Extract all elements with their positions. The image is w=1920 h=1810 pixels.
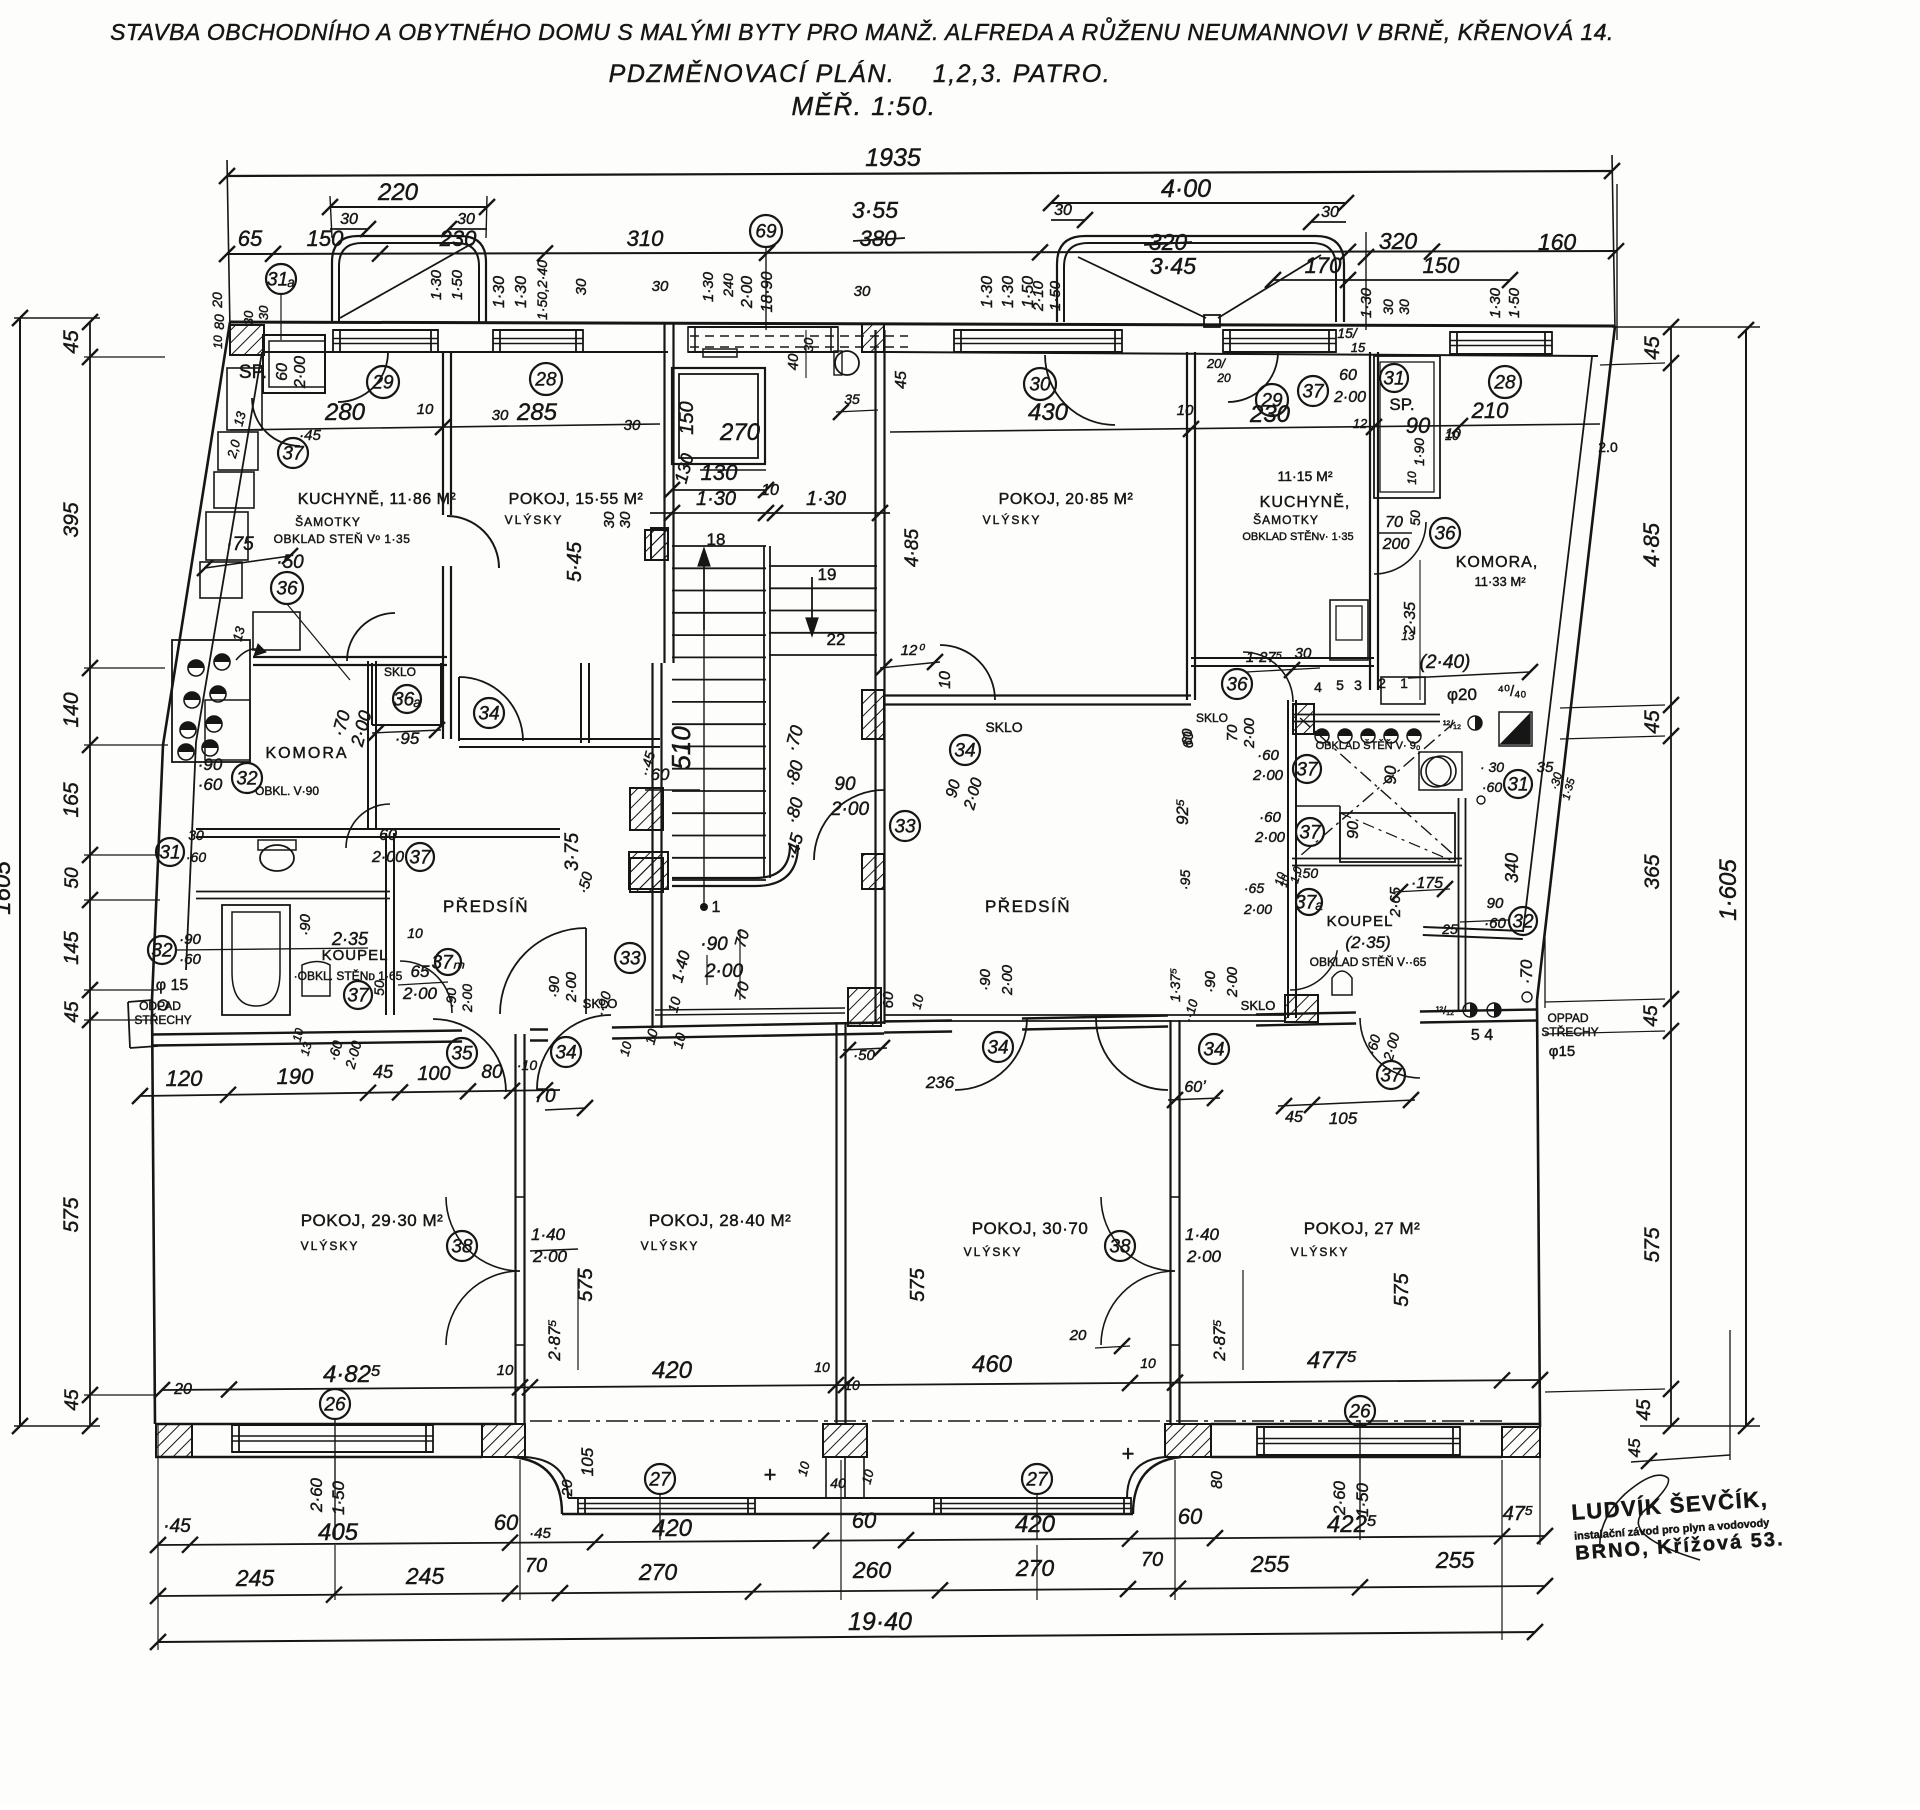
svg-text:255: 255 — [1435, 1547, 1475, 1573]
svg-text:60: 60 — [852, 1508, 877, 1533]
svg-text:VLÝSKY: VLÝSKY — [983, 512, 1042, 527]
svg-text:45: 45 — [1634, 1399, 1655, 1421]
svg-text:45: 45 — [1625, 1438, 1644, 1457]
svg-text:105: 105 — [578, 1447, 597, 1476]
svg-text:2·00: 2·00 — [1224, 966, 1241, 998]
svg-text:(2·35): (2·35) — [1345, 933, 1390, 952]
svg-text:28: 28 — [1493, 373, 1516, 394]
svg-text:11·15 M²: 11·15 M² — [1278, 468, 1333, 484]
svg-text:·90: ·90 — [198, 755, 223, 774]
svg-text:10: 10 — [211, 335, 225, 349]
svg-text:160: 160 — [1538, 229, 1577, 255]
pillar hatched bottom left of bay — [482, 1424, 525, 1457]
circled 36 kitchen — [271, 572, 303, 604]
circled 69 axis top — [750, 215, 782, 247]
svg-text:45: 45 — [373, 1062, 394, 1082]
circled 28 left — [530, 363, 562, 395]
svg-text:POKOJ, 27 M²: POKOJ, 27 M² — [1304, 1219, 1421, 1238]
svg-text:320: 320 — [1379, 228, 1418, 254]
svg-text:477⁵: 477⁵ — [1307, 1347, 1357, 1374]
svg-text:70: 70 — [534, 1086, 556, 1107]
wall pokoj30/27 — [1169, 1020, 1171, 1424]
circled 29 right — [1228, 352, 1278, 402]
door arc predsin right — [1243, 652, 1293, 702]
wall pokoj29/28 — [514, 1034, 516, 1424]
svg-text:2·00: 2·00 — [739, 276, 756, 309]
dim row 170 150 — [1273, 279, 1510, 281]
svg-text:90: 90 — [1487, 895, 1504, 912]
svg-text:20: 20 — [1069, 1327, 1087, 1344]
svg-text:37: 37 — [409, 848, 432, 869]
svg-text:OBKL. V·90: OBKL. V·90 — [255, 784, 319, 798]
svg-text:150: 150 — [1423, 253, 1460, 278]
svg-text:255: 255 — [1250, 1551, 1290, 1577]
svg-text:422⁵: 422⁵ — [1327, 1511, 1377, 1538]
stair axis line vertical — [703, 630, 705, 907]
balcony right rounded outline — [1057, 236, 1344, 322]
svg-text:1·30: 1·30 — [1358, 287, 1375, 318]
outer wall right slanted — [1537, 326, 1615, 1000]
svg-text:310: 310 — [627, 226, 664, 251]
svg-text:20: 20 — [559, 1479, 576, 1497]
SP pantry room — [263, 335, 325, 393]
svg-text:60: 60 — [1179, 728, 1196, 745]
svg-text:32: 32 — [151, 941, 173, 962]
left extension ticks — [14, 317, 100, 319]
arrow into kitchen — [236, 649, 260, 660]
svg-text:60: 60 — [880, 991, 897, 1008]
dim row y1590 245 245 70 270 260 270 70 255 255 — [158, 1586, 1545, 1596]
balcony left rounded outline — [332, 236, 486, 322]
svg-text:PŘEDSÍŇ: PŘEDSÍŇ — [985, 897, 1071, 916]
svg-text:36ₐ: 36ₐ — [393, 690, 421, 711]
svg-text:2·87⁵: 2·87⁵ — [545, 1319, 564, 1361]
hatch block predsin right wall upper — [630, 788, 663, 830]
svg-text:30: 30 — [1396, 299, 1412, 315]
svg-text:2.0: 2.0 — [1598, 439, 1618, 455]
svg-text:ŠAMOTKY: ŠAMOTKY — [1253, 512, 1319, 527]
door arc 35 — [433, 1019, 506, 1092]
stair right wall hatch lower — [862, 854, 884, 889]
stair walking line down right — [811, 577, 813, 628]
svg-text:45: 45 — [60, 330, 83, 354]
svg-text:90: 90 — [1406, 413, 1431, 438]
svg-text:30: 30 — [652, 278, 669, 295]
bath tub left apartment — [222, 905, 290, 1015]
dim right balcony 4.00 — [1051, 202, 1346, 204]
dim left balcony 220 — [330, 206, 487, 208]
svg-text:47⁵: 47⁵ — [1503, 1503, 1534, 1525]
svg-text:80: 80 — [1209, 1471, 1226, 1489]
svg-text:60: 60 — [1339, 367, 1357, 384]
svg-text:SP.: SP. — [1389, 395, 1414, 414]
svg-text:395: 395 — [60, 502, 83, 537]
svg-text:45: 45 — [1285, 1109, 1303, 1126]
wall kuchyne/komora right — [1369, 352, 1371, 690]
svg-text:18·90: 18·90 — [759, 271, 776, 312]
svg-text:25: 25 — [1441, 921, 1458, 937]
svg-text:·90: ·90 — [297, 914, 314, 936]
bay curve left — [513, 1457, 562, 1514]
svg-text:38: 38 — [451, 1237, 473, 1258]
stair dim 130 — [672, 489, 766, 491]
left dim line 1605 — [19, 318, 21, 1426]
door arc 36a kitchen-pokoj — [447, 516, 499, 568]
svg-text:1·30: 1·30 — [1487, 287, 1504, 318]
svg-text:70: 70 — [1141, 1549, 1163, 1571]
svg-text:1·30: 1·30 — [696, 488, 736, 510]
diag dashdot bathroom right — [1300, 718, 1455, 856]
svg-text:190: 190 — [277, 1064, 314, 1089]
svg-text:2·00: 2·00 — [459, 984, 475, 1013]
svg-text:PDZMĚNOVACÍ PLÁN.: PDZMĚNOVACÍ PLÁN. — [609, 59, 896, 88]
dim top overall 1935 — [227, 171, 1612, 176]
svg-text:OBKLAD STĚŇ V··65: OBKLAD STĚŇ V··65 — [1310, 954, 1427, 969]
water heater arch koupel right — [1332, 971, 1352, 995]
svg-text:31: 31 — [1383, 369, 1404, 390]
svg-text:65: 65 — [411, 962, 430, 981]
svg-text:OBKLAD ŠTĚŇ V· 9₀: OBKLAD ŠTĚŇ V· 9₀ — [1316, 739, 1421, 752]
svg-text:220: 220 — [377, 179, 419, 206]
svg-text:65: 65 — [238, 226, 263, 251]
svg-text:35: 35 — [844, 391, 860, 407]
svg-text:90: 90 — [834, 774, 856, 795]
svg-text:4·00: 4·00 — [1161, 175, 1211, 203]
svg-text:OPPAD: OPPAD — [1547, 1011, 1588, 1025]
koupel left walls — [385, 833, 387, 1015]
dim 30 small with hatch near stair — [645, 530, 668, 560]
komora room walls — [367, 661, 369, 830]
svg-text:·75: ·75 — [226, 534, 254, 555]
stair treads left run — [672, 545, 766, 547]
svg-text:130: 130 — [701, 460, 738, 485]
stair landing window with dashed lines — [688, 326, 838, 328]
svg-text:30: 30 — [1295, 645, 1312, 662]
svg-text:510: 510 — [666, 726, 696, 770]
svg-text:13: 13 — [1401, 629, 1415, 643]
svg-text:270: 270 — [638, 1559, 678, 1585]
svg-text:26: 26 — [323, 1395, 346, 1416]
door 38 double arcs right — [1101, 1197, 1175, 1271]
sink right circle — [1421, 757, 1451, 787]
svg-text:10: 10 — [1445, 428, 1460, 443]
dim row y1540 45 405 60 420 60 420 60 422.5 47.5 — [158, 1536, 1545, 1545]
svg-text:·90: ·90 — [700, 934, 728, 955]
half circles 12/12 marks — [1468, 716, 1482, 730]
window 30 right apartment — [954, 329, 1122, 331]
svg-text:·60: ·60 — [1259, 809, 1281, 826]
hatch block predsin right wall lower — [630, 858, 663, 892]
svg-text:KUCHYNĚ, 11·86 M²: KUCHYNĚ, 11·86 M² — [298, 489, 457, 508]
svg-text:1·605: 1·605 — [1715, 859, 1742, 921]
svg-text:60: 60 — [494, 1510, 519, 1535]
svg-text:1·50: 1·50 — [1506, 287, 1523, 318]
svg-text:19·40: 19·40 — [848, 1608, 912, 1636]
svg-text:3·75: 3·75 — [562, 833, 583, 871]
svg-text:MĚŘ. 1:50.: MĚŘ. 1:50. — [791, 91, 936, 121]
svg-text:30: 30 — [241, 310, 256, 325]
window 28 left apartment — [493, 329, 583, 331]
elevator shaft — [672, 368, 765, 464]
circled 31 right wall — [1504, 770, 1532, 798]
balcony left diagonal strut — [340, 243, 473, 318]
svg-text:50: 50 — [371, 980, 387, 996]
svg-text:·45: ·45 — [163, 1516, 191, 1537]
circled 28 right — [1489, 366, 1521, 398]
main horizontal wall hall/pokoj row — [152, 1042, 462, 1046]
svg-text:·50: ·50 — [853, 1047, 875, 1064]
svg-text:460: 460 — [972, 1351, 1013, 1378]
svg-text:285: 285 — [516, 399, 558, 426]
door arc 37 right to pokoj27 — [1360, 1018, 1420, 1078]
circled 32 komora — [232, 763, 262, 793]
svg-text:2·35: 2·35 — [331, 929, 369, 949]
svg-text:32: 32 — [1512, 912, 1534, 933]
svg-text:365: 365 — [1641, 854, 1664, 889]
svg-text:5 4: 5 4 — [1471, 1027, 1493, 1044]
door 38 double arcs left — [446, 1197, 520, 1271]
wall under kuchyne right y660 — [1191, 665, 1374, 667]
cupboard right of komora — [205, 700, 250, 760]
stair left wall hatch lower — [629, 852, 668, 889]
outer wall top inner face — [264, 351, 668, 353]
svg-text:37ₘ: 37ₘ — [432, 953, 465, 974]
svg-text:45: 45 — [893, 371, 910, 389]
svg-text:+: + — [1122, 1441, 1135, 1466]
svg-text:· 30: · 30 — [1480, 759, 1504, 775]
dim left balcony 30 sub — [330, 228, 368, 230]
svg-text:30: 30 — [1380, 299, 1396, 315]
svg-text:19: 19 — [818, 565, 837, 584]
svg-text:260: 260 — [852, 1557, 892, 1583]
svg-text:236: 236 — [925, 1073, 955, 1092]
pillar hatched bottom right of bay — [1165, 1424, 1211, 1457]
bay center mullion lines — [825, 1457, 827, 1498]
svg-text:45: 45 — [62, 1001, 83, 1023]
svg-text:·60: ·60 — [186, 849, 206, 865]
svg-text:30: 30 — [601, 511, 618, 528]
svg-text:SP.: SP. — [239, 362, 267, 383]
svg-text:30: 30 — [188, 827, 204, 843]
dims 70 200 box right kitchen — [1377, 532, 1412, 534]
svg-text:31ₐ: 31ₐ — [267, 270, 295, 291]
coat hooks right apartment — [1315, 729, 1329, 743]
wall bottom pokoj 20.85 y700 — [884, 703, 1191, 705]
stair core left wall upper — [663, 322, 665, 663]
circled 37 sp right — [1298, 376, 1328, 406]
elevator dim 270 — [700, 469, 766, 471]
svg-text:·90: ·90 — [977, 969, 994, 991]
svg-text:2·00: 2·00 — [999, 964, 1016, 996]
svg-text:10: 10 — [814, 1359, 830, 1375]
door arc 37a right — [1290, 950, 1337, 990]
svg-text:37: 37 — [1302, 382, 1325, 403]
svg-text:VLÝSKY: VLÝSKY — [301, 1238, 360, 1253]
svg-text:270: 270 — [1015, 1555, 1055, 1581]
svg-text:22: 22 — [827, 630, 846, 649]
svg-text:30: 30 — [1054, 202, 1072, 219]
stair up arrow 18 — [703, 556, 705, 630]
svg-text:·95: ·95 — [1177, 870, 1193, 890]
svg-text:15/: 15/ — [1337, 325, 1359, 341]
svg-text:15: 15 — [1351, 340, 1366, 355]
svg-text:1·30: 1·30 — [1000, 276, 1017, 308]
svg-text:KUCHYNĚ,: KUCHYNĚ, — [1260, 492, 1351, 511]
svg-text:20: 20 — [209, 292, 225, 309]
svg-text:30: 30 — [801, 337, 816, 352]
hatch top-left bathroom block — [1293, 704, 1314, 734]
svg-text:60: 60 — [274, 363, 291, 381]
door arc 36 kitchen door — [347, 613, 395, 661]
svg-text:OBKLAD STEŇ Vᵒ 1·35: OBKLAD STEŇ Vᵒ 1·35 — [274, 531, 411, 546]
dim row y=252: 65 150 230 310 380 320 160 — [227, 251, 1616, 254]
svg-text:405: 405 — [318, 1519, 359, 1546]
svg-text:POKOJ, 30·70: POKOJ, 30·70 — [972, 1219, 1089, 1238]
svg-text:2·87⁵: 2·87⁵ — [1210, 1319, 1229, 1361]
svg-text:VLÝSKY: VLÝSKY — [505, 512, 564, 527]
bath tub right apartment — [1340, 813, 1455, 862]
svg-text:80: 80 — [211, 314, 227, 330]
svg-text:20/: 20/ — [1206, 356, 1226, 371]
hall dims 60 and arcs — [645, 789, 700, 791]
stair core left wall lower — [651, 663, 653, 1028]
pillar hatched bottom far-left — [156, 1424, 192, 1457]
svg-text:⁴⁰/₄₀: ⁴⁰/₄₀ — [1498, 683, 1527, 700]
stair bottom curve — [672, 845, 790, 878]
svg-text:4·82⁵: 4·82⁵ — [323, 1361, 381, 1388]
svg-text:40: 40 — [830, 1475, 846, 1491]
svg-text:27: 27 — [648, 1470, 672, 1491]
svg-text:1605: 1605 — [0, 861, 16, 915]
door arc 29 left window — [338, 352, 388, 402]
svg-text:245: 245 — [235, 1565, 275, 1591]
outer wall bottom left section — [155, 1423, 513, 1425]
circled 32 koupel — [148, 936, 176, 964]
svg-text:2·00: 2·00 — [1186, 1247, 1222, 1266]
dim 2.60 1.50 window26 left — [334, 1418, 336, 1538]
svg-text:PŘEDSÍŇ: PŘEDSÍŇ — [443, 897, 529, 916]
outer wall left slanted — [163, 322, 230, 745]
outer wall top — [230, 322, 1615, 326]
svg-text:10: 10 — [407, 925, 423, 941]
svg-text:1·30: 1·30 — [513, 276, 530, 308]
stamp swoosh — [1600, 1475, 1700, 1560]
svg-text:SKLO: SKLO — [384, 665, 416, 679]
svg-text:240: 240 — [720, 273, 736, 298]
svg-text:36: 36 — [276, 579, 298, 600]
dim row under wall 120 190 45 100 80 70 — [140, 1090, 560, 1096]
svg-text:340: 340 — [1502, 853, 1522, 883]
svg-text:150: 150 — [307, 226, 344, 251]
svg-text:KOUPEL: KOUPEL — [322, 947, 389, 964]
svg-text:10: 10 — [761, 482, 779, 499]
svg-text:2·00: 2·00 — [1254, 829, 1286, 846]
circled 37a right — [1296, 889, 1322, 915]
svg-text:30: 30 — [492, 407, 509, 424]
svg-text:1·90: 1·90 — [1411, 438, 1427, 466]
svg-text:POKOJ, 15·55 M²: POKOJ, 15·55 M² — [509, 491, 644, 508]
svg-text:2·00: 2·00 — [1333, 389, 1366, 406]
door arc kuchyne right — [1374, 522, 1426, 574]
svg-text:1·50: 1·50 — [329, 1480, 348, 1515]
svg-text:30: 30 — [617, 511, 634, 528]
svg-text:92⁵: 92⁵ — [1173, 799, 1192, 825]
svg-text:1·30: 1·30 — [700, 271, 717, 302]
dim 35 under vent — [836, 410, 878, 412]
svg-text:1·30: 1·30 — [428, 269, 445, 300]
window 27 bay right — [934, 1497, 1131, 1499]
dim 50 under hatch — [843, 1048, 887, 1050]
extension lines bottom — [157, 1424, 159, 1650]
svg-text:·60: ·60 — [198, 775, 223, 794]
svg-text:90: 90 — [1381, 765, 1400, 784]
pillar hatched bottom far-right — [1502, 1427, 1540, 1457]
dim total 19.40 — [158, 1632, 1535, 1642]
svg-text:29: 29 — [1260, 391, 1283, 412]
svg-text:575: 575 — [1641, 1227, 1664, 1262]
svg-text:ŠAMOTKY: ŠAMOTKY — [295, 514, 361, 529]
svg-text:1,2,3. PATRO.: 1,2,3. PATRO. — [933, 60, 1111, 88]
hatch at stair wall bottom junction — [848, 988, 881, 1026]
sklo wall right predsin — [884, 1020, 1285, 1022]
svg-text:34: 34 — [954, 741, 975, 762]
kitchen range with burners — [172, 640, 250, 762]
svg-text:575: 575 — [60, 1197, 83, 1232]
dim row 430 230 90 210 — [890, 424, 1600, 432]
svg-text:·50: ·50 — [276, 552, 304, 573]
dim 2.60 1.50 window26 right — [1359, 1420, 1361, 1540]
svg-text:·70: ·70 — [1517, 959, 1536, 984]
svg-text:3·45: 3·45 — [1150, 253, 1196, 279]
right 45 dim near bottom — [1631, 1455, 1730, 1462]
svg-text:18: 18 — [707, 530, 726, 549]
svg-text:2·00: 2·00 — [1252, 767, 1284, 784]
svg-text:420: 420 — [652, 1357, 693, 1384]
wall pokoj28/30 — [835, 1022, 837, 1424]
svg-text:OBKLAD STĚNᴠ· 1·35: OBKLAD STĚNᴠ· 1·35 — [1242, 530, 1353, 543]
svg-text:1: 1 — [712, 899, 721, 916]
hatch in wall right of stair window — [862, 324, 884, 352]
svg-text:37: 37 — [1296, 760, 1319, 781]
black triangle flue — [1501, 714, 1530, 744]
door arcs 34 under sklo wall — [955, 1018, 1027, 1090]
svg-text:φ15: φ15 — [1549, 1043, 1575, 1060]
svg-text:270: 270 — [719, 419, 761, 446]
svg-text:29: 29 — [371, 373, 394, 394]
svg-text:60: 60 — [1178, 1504, 1203, 1529]
dim row 280 / 285 at y425 — [230, 424, 660, 430]
svg-text:20: 20 — [173, 1381, 192, 1398]
door arc 37a koupel — [400, 961, 452, 1013]
wall pokoj20/kuchyne right — [1186, 352, 1188, 700]
svg-text:10: 10 — [937, 671, 954, 689]
svg-text:KOMORA,: KOMORA, — [1456, 554, 1539, 571]
svg-text:KOUPEL: KOUPEL — [1327, 913, 1394, 930]
svg-text:34: 34 — [987, 1038, 1008, 1059]
svg-text:430: 430 — [1028, 399, 1069, 426]
door arc 33 hall-right — [814, 790, 884, 860]
svg-text:35: 35 — [451, 1044, 473, 1065]
svg-text:105: 105 — [1329, 1109, 1358, 1128]
circled 32 koupel right — [1509, 907, 1537, 935]
svg-text:·30: ·30 — [256, 305, 271, 325]
svg-text:φ20: φ20 — [1447, 685, 1477, 704]
svg-text:1·40: 1·40 — [531, 1225, 566, 1244]
dim 60 right of stair — [1168, 1098, 1220, 1100]
window 26 bottom-left — [232, 1424, 433, 1426]
komora bottom wall right — [1423, 935, 1523, 939]
circled 37 bathroom right lower — [1296, 818, 1324, 846]
